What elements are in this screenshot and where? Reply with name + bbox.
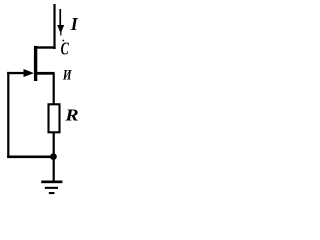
svg-text:I: I	[70, 14, 79, 34]
svg-text:R: R	[64, 107, 78, 125]
svg-text:И: И	[62, 67, 72, 83]
svg-text:С: С	[61, 39, 70, 59]
